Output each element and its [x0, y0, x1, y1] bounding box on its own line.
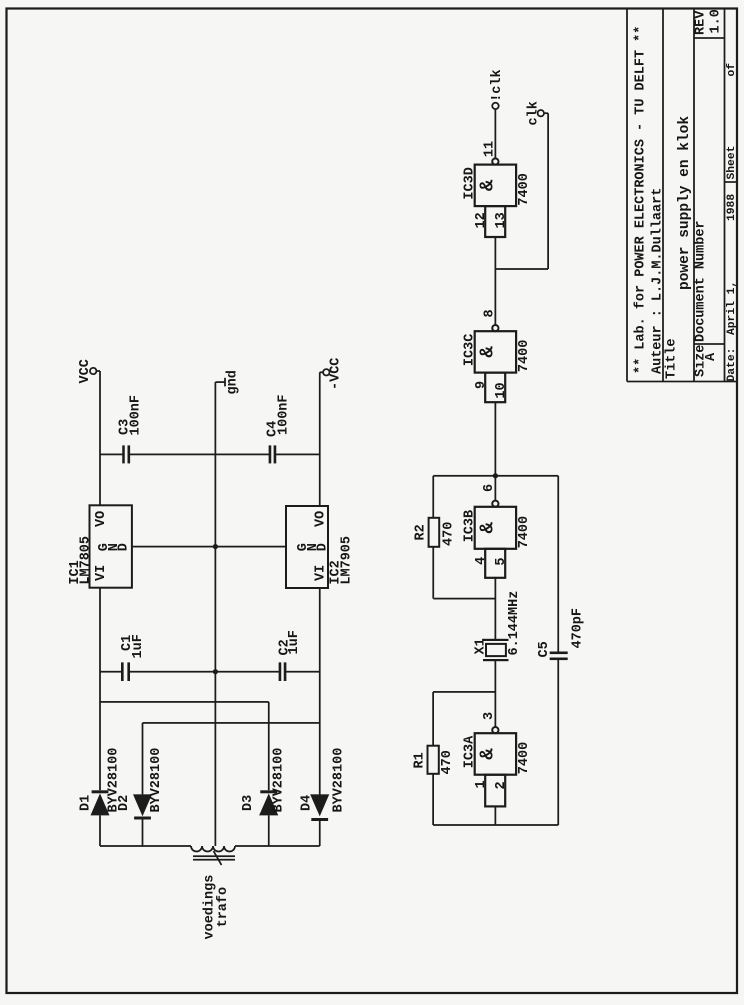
wire: crystal to IC3B input [494, 578, 496, 640]
svg-text:IC3A: IC3A [463, 735, 478, 768]
nand gate IC3B [475, 501, 516, 578]
wire: IC1 GND pin to IC2 GND pin [132, 546, 286, 548]
svg-text:4: 4 [474, 557, 489, 565]
svg-text:470pF: 470pF [571, 608, 586, 649]
wire: R1 left lead [432, 774, 434, 825]
capacitor C4 [269, 445, 272, 463]
svg-text:5: 5 [494, 558, 509, 566]
svg-text:Title: Title [665, 338, 680, 379]
junction: C1/C2 on gnd rail [213, 669, 218, 674]
svg-text:&: & [477, 522, 499, 534]
svg-text:Sheet: Sheet [726, 146, 738, 180]
wire: VCC rail left segment [99, 815, 101, 846]
svg-text:of: of [726, 63, 738, 77]
svg-text:&: & [477, 748, 499, 760]
wire: transformer tap to D3 [268, 815, 270, 846]
svg-text:Document Number: Document Number [694, 220, 709, 342]
wire: IC3B output to IC3C input [494, 402, 496, 500]
diode D1 [92, 796, 108, 815]
junction: GND pins on gnd rail [213, 544, 218, 549]
svg-text:R1: R1 [413, 752, 428, 768]
svg-text:power supply en klok: power supply en klok [677, 116, 693, 290]
diode D4 [312, 795, 328, 814]
svg-text:12: 12 [474, 212, 489, 228]
svg-text:7400: 7400 [517, 516, 532, 548]
regulator IC2 LM7905 [286, 506, 328, 588]
svg-text:7400: 7400 [517, 340, 532, 372]
svg-text:VO: VO [314, 511, 329, 527]
wire: IC3A output to crystal [494, 660, 496, 727]
transformer T1 secondary winding [100, 845, 191, 847]
wire: C1 leg from VCC rail [100, 671, 122, 673]
svg-text:BYV28100: BYV28100 [272, 748, 287, 813]
wire: R2 right lead [432, 476, 434, 518]
resistor R1 [428, 746, 439, 774]
svg-text:VO: VO [94, 511, 109, 527]
wire: C2 to -VCC rail [285, 671, 320, 673]
svg-text:470: 470 [440, 750, 455, 774]
svg-text:Date:: Date: [726, 348, 738, 382]
nand gate IC3C [475, 325, 516, 402]
crystal X1 [483, 659, 509, 661]
svg-text:BYV28100: BYV28100 [332, 748, 347, 813]
wire: clk run to terminal [547, 113, 549, 269]
wire: transformer tap to D2 [142, 819, 144, 846]
svg-text:D2: D2 [117, 795, 132, 811]
svg-text:LM7805: LM7805 [79, 536, 94, 585]
svg-text:100nF: 100nF [129, 395, 144, 436]
transformer core slash [214, 851, 222, 865]
svg-text:7400: 7400 [517, 742, 532, 774]
svg-text:D: D [316, 543, 331, 551]
title block outline [627, 9, 737, 382]
svg-text:2: 2 [494, 781, 509, 789]
wire: VCC rail D1 to IC1 [99, 588, 101, 791]
capacitor C3 [122, 445, 125, 463]
svg-text:!clk: !clk [490, 69, 505, 101]
svg-text:3: 3 [482, 712, 497, 720]
wire: C3 leg from VCC rail [100, 453, 124, 455]
capacitor C1 [121, 662, 124, 681]
wire: -VCC rail left segment [319, 821, 321, 846]
svg-text:9: 9 [474, 381, 489, 389]
wire: D2 corner down to -VCC rail [143, 722, 320, 724]
regulator IC1 LM7805 [90, 505, 132, 587]
svg-text:-VCC: -VCC [329, 358, 344, 390]
wire: VCC rail IC1 to terminal [99, 371, 101, 505]
wire: feedback bus to IC3A input [494, 806, 496, 825]
wire: IC3D output to !clk terminal [494, 109, 496, 158]
wire: feedback bus left vertical [433, 824, 558, 826]
svg-text:VI: VI [94, 565, 109, 581]
svg-text:** Lab. for POWER ELECTRONICS: ** Lab. for POWER ELECTRONICS - TU DELFT… [634, 26, 649, 374]
wire: clk terminal stub [544, 112, 548, 114]
wire: IC3C output to IC3D input [494, 237, 496, 325]
wire: IC3B input node up to R2 level [433, 598, 495, 600]
svg-text:D3: D3 [241, 795, 256, 811]
terminal clk [538, 110, 544, 116]
svg-text:April 1,: April 1, [726, 281, 738, 335]
svg-text:100nF: 100nF [277, 394, 292, 435]
svg-text:BYV28100: BYV28100 [149, 748, 164, 813]
capacitor C2 [279, 662, 282, 681]
ground symbol [215, 381, 225, 383]
svg-text:&: & [477, 346, 499, 358]
svg-text:10: 10 [494, 382, 509, 398]
junction: feedback on IC3B output [493, 473, 498, 478]
wire: C3 to C4 crossing gnd rail [129, 453, 270, 455]
svg-text:Auteur : L.J.M.Dullaart: Auteur : L.J.M.Dullaart [651, 188, 666, 374]
svg-text:D4: D4 [300, 795, 315, 811]
diode D3 [261, 796, 277, 815]
svg-text:IC3D: IC3D [463, 167, 478, 199]
resistor R2 [429, 518, 440, 547]
svg-text:gnd: gnd [226, 370, 241, 394]
transformer core lines [193, 859, 235, 861]
wire: R2 left lead [432, 547, 434, 599]
wire: D3 corner up to VCC rail [100, 701, 269, 703]
svg-text:C5: C5 [537, 641, 552, 657]
svg-text:R2: R2 [414, 524, 429, 540]
terminal -VCC [320, 371, 323, 373]
nand gate IC3A [475, 727, 516, 806]
svg-text:7400: 7400 [517, 173, 532, 205]
capacitor C5 [550, 657, 568, 660]
wire: gnd rail [214, 382, 216, 846]
svg-text:REV: REV [694, 10, 709, 35]
svg-text:IC3C: IC3C [463, 334, 478, 366]
wire: D2 anode to corner [142, 723, 144, 795]
svg-text:VI: VI [314, 565, 329, 581]
wire: D3 cathode to corner [268, 702, 270, 790]
svg-text:trafo: trafo [216, 887, 231, 928]
wire: IC3B output node vertical [433, 475, 558, 477]
svg-text:1: 1 [474, 780, 489, 788]
svg-text:6: 6 [482, 484, 497, 492]
svg-text:VCC: VCC [78, 359, 93, 383]
diode D2 [134, 795, 150, 814]
svg-text:&: & [477, 179, 499, 191]
svg-text:13: 13 [494, 212, 509, 228]
svg-text:D1: D1 [79, 795, 94, 811]
svg-text:clk: clk [527, 101, 542, 125]
svg-text:1988: 1988 [726, 194, 738, 221]
svg-text:1uF: 1uF [287, 630, 302, 654]
terminal !clk [492, 103, 498, 109]
svg-text:LM7905: LM7905 [340, 536, 355, 585]
wire: IC3A output node up to R1 level [433, 691, 495, 693]
svg-text:6.144MHz: 6.144MHz [507, 591, 522, 656]
wire: clk takeoff down from IC3D input net [495, 268, 548, 270]
svg-text:1.0: 1.0 [709, 9, 724, 33]
wire: C5 to IC3B output leg [557, 476, 559, 653]
wire: C4 to -VCC rail [275, 453, 320, 455]
svg-text:D: D [117, 543, 132, 551]
wire: bottom bus to C5 [557, 659, 559, 825]
svg-text:8: 8 [483, 309, 498, 317]
wire: -VCC rail IC2 to terminal [319, 372, 321, 506]
wire: R1 right lead [432, 692, 434, 746]
svg-text:1uF: 1uF [131, 634, 146, 658]
terminal VCC [96, 370, 100, 372]
wire: -VCC rail D4 to IC2 [319, 588, 321, 794]
svg-text:11: 11 [483, 141, 498, 157]
svg-text:X1: X1 [474, 638, 489, 654]
svg-text:470: 470 [442, 522, 457, 546]
nand gate IC3D [475, 158, 516, 237]
svg-text:A: A [704, 352, 719, 361]
wire: C1 to gnd rail to C2 [129, 671, 280, 673]
svg-text:IC3B: IC3B [463, 510, 478, 542]
